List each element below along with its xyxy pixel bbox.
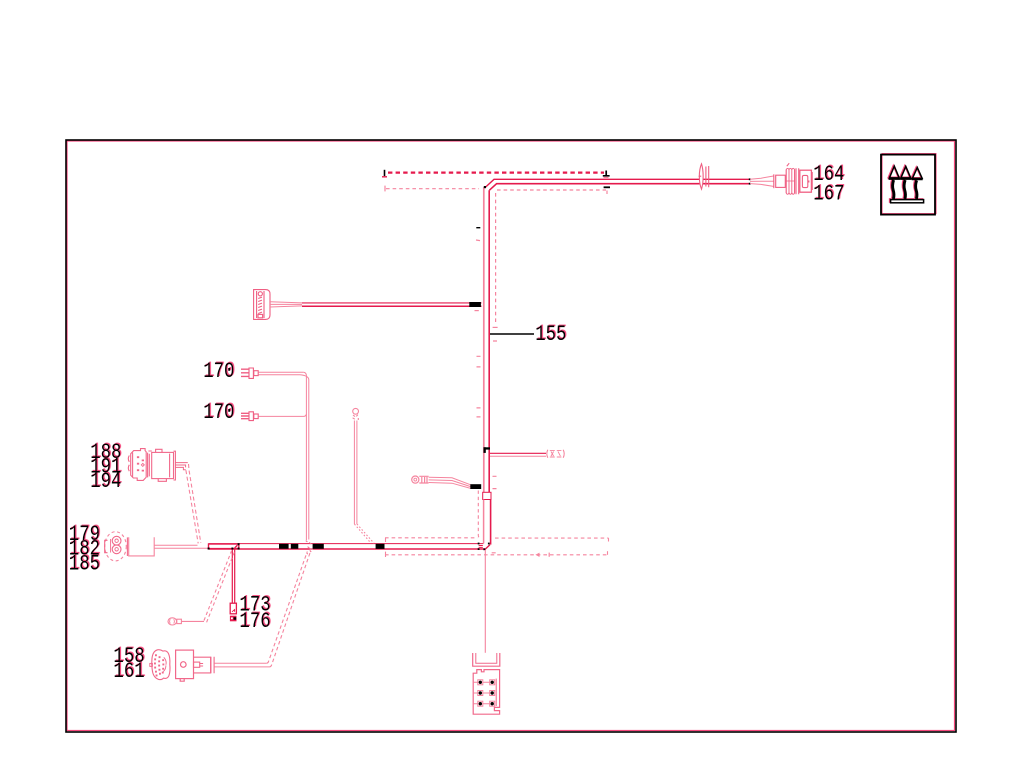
tick marks along trunk [476,240,497,553]
fan wires eyelet to trunk [429,477,471,488]
connector 188 socket housing [152,449,176,481]
heater icon black: three wavy arrows over bar [889,166,924,203]
thin harness pair from 179 to tape [154,545,208,548]
wire from bullet to diagonal [182,620,205,622]
black tape on that wire [469,302,481,307]
dashed double diagonal bullet to T1 junction [204,551,232,621]
bottom connector U bracket [473,653,500,666]
pin cells [473,680,495,706]
icon box black [881,155,935,215]
crimson wedge at T1 junction [235,545,238,548]
outer chamfer top corner [485,179,750,187]
icon box pink shadow [882,154,936,214]
branch nub black at trunk [484,447,486,453]
svg-text:155: 155 [535,321,566,347]
left connector (to pin 155 branch) [254,290,270,320]
svg-text:170: 170 [203,358,234,384]
wire pair from 158 plug [214,663,269,667]
connector 158/161 oval pin face [150,650,170,680]
bottom connector body [473,670,499,715]
pink tick under right end [604,177,609,179]
plug on right of 158 box [194,657,215,674]
svg-text:194: 194 [90,468,121,494]
black tape B4 [376,544,385,549]
black tape B2 [291,544,299,549]
connector 164/167 body [774,163,813,194]
black end mark of right thin dashed [604,186,610,188]
wire pair down from ring terminal [354,421,357,525]
wire left connector to trunk top line [302,302,482,304]
dashed horizontal right of corner [495,537,609,539]
branch wire pair to right connector [490,452,546,454]
wire trunk vertical outer (left) line light [483,187,485,492]
170 lower wire joining vertical pair [258,414,306,416]
white tape box T1 on harness [209,544,239,549]
heater icon pink copy [888,166,923,203]
connector 179/182/185 dashed ellipse [105,532,127,561]
inner round contacts [105,536,128,556]
terminal 173/176 lower filled square [230,616,237,622]
wire trunk lower wide segment right [490,500,492,545]
svg-text:170: 170 [203,399,234,425]
wire trunk vertical inner (right) line [489,184,750,493]
border frame pink inner line [67,141,955,731]
pink end tick [606,191,608,195]
top bold dashed line [388,172,604,174]
dashed outline lower: right end tick [607,551,609,555]
wires out of 188 connector [175,463,187,470]
thin dashed line top left [386,188,479,190]
thin dashed line top right segment [497,189,606,191]
U wire from 179 connector [129,537,155,556]
dashed double wire 188 down to harness [189,464,201,543]
dashed outline lower: top dashed [385,537,478,539]
its right end tick [608,538,610,541]
corner junction dots [478,543,480,545]
bottom connector inner rail [495,679,497,706]
bullet terminal left of 173 [168,618,181,625]
corner chamfer diagonal [485,545,490,550]
main horizontal harness bottom line [209,548,486,550]
black tick beside trunk [476,227,480,229]
thin drop wire from harness corner to bottom connector [484,550,486,653]
leader line for 155 [490,333,535,335]
black tape B1 [279,544,289,549]
wire trunk lower collar segment [483,492,491,499]
grommet on top harness [699,164,709,189]
170 upper bullet connector [241,368,258,378]
dashed outline lower: left vertical ticks [385,538,387,557]
terminal 173/176 upper box [230,603,236,614]
svg-text:167: 167 [813,180,844,206]
fan wires tube end to connector 164 [750,176,774,186]
dashed vertical right of trunk [495,193,497,325]
dotted diagonal joining harness before B4 [354,524,371,543]
black tape B3 [313,544,324,549]
wires from left connector fanning [270,302,302,307]
ring terminal small (on mid wire) [353,408,359,420]
wire 173/176 vertical pair [232,550,234,604]
black corner dots of T1 [208,548,210,550]
svg-text:176: 176 [239,608,270,634]
170 upper wire pair going right then down [258,372,303,375]
black tape B6 at eyelet junction [470,484,481,489]
main horizontal harness top line [209,543,484,545]
tick on bottom dashed [548,553,550,557]
dashed vertical along trunk left [478,491,481,539]
svg-text:185: 185 [69,550,100,576]
wire trunk lower wide segment left [483,500,485,544]
dashed outline lower: bottom dashed [385,554,607,556]
pins of 158 oval [154,654,164,676]
arrowhead on bottom dashed [535,553,539,557]
dashed vertical foot [493,326,498,328]
black end mark right of bold dashed [603,171,610,176]
MAIN HARNESS [209,179,751,550]
T mark at its left end [384,186,386,192]
splay chevrons where 170 pair meets harness [306,541,313,555]
connector 188/191/194 plug [128,449,151,481]
harness end stubs [479,546,483,548]
170 lower bullet connector [241,412,258,421]
pink tick under left end [382,176,387,178]
svg-text:161: 161 [113,658,144,684]
black dots at tube end [749,178,751,180]
black tick at left end of bold dashed [384,170,386,176]
border frame black [66,140,956,732]
eyelet terminal [412,476,429,483]
tick below [475,310,479,312]
six black pins [479,681,494,706]
corner black dot top [484,186,486,188]
component 158/161 relay box [176,650,194,681]
small hatched connector at branch end [547,450,564,458]
wire left connector to trunk bottom line [302,305,482,307]
dashed double diagonal 158 wire up to harness [267,552,308,664]
